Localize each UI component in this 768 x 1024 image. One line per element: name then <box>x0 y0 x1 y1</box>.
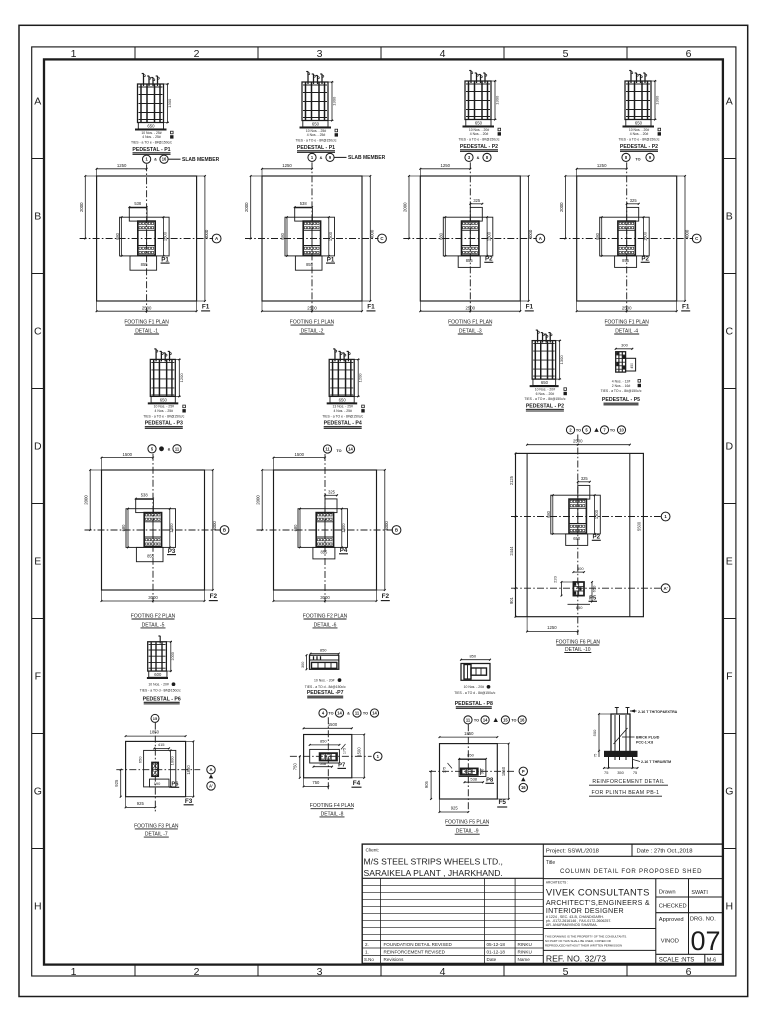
svg-text:2000: 2000 <box>559 202 564 212</box>
svg-text:3: 3 <box>317 48 323 60</box>
column section (hatched) <box>138 221 155 255</box>
svg-text:P1: P1 <box>327 256 335 263</box>
svg-text:1300: 1300 <box>169 523 174 533</box>
F3 dimension 415 <box>154 747 169 749</box>
svg-text:10 Nos. - 20#: 10 Nos. - 20# <box>469 128 489 132</box>
dimension 680 <box>601 217 603 256</box>
svg-text:1500: 1500 <box>328 722 338 727</box>
svg-text:TIES - a TO d - 8#@150c/c: TIES - a TO d - 8#@150c/c <box>454 691 495 695</box>
svg-text:TIES - a TO e - 8#@150c/c: TIES - a TO e - 8#@150c/c <box>143 415 184 419</box>
svg-text:500: 500 <box>592 729 597 736</box>
svg-text:650: 650 <box>160 398 168 403</box>
svg-text:1850: 1850 <box>464 731 474 736</box>
svg-text:2125: 2125 <box>509 475 514 485</box>
svg-text:925: 925 <box>137 801 145 806</box>
svg-text:6 Nos. - 20#: 6 Nos. - 20# <box>536 392 555 396</box>
svg-text:3000: 3000 <box>320 595 330 600</box>
column section (hatched) <box>569 499 586 533</box>
pedestal height dimension <box>556 340 562 342</box>
footing F5 plan outline <box>440 744 498 799</box>
F5 dimension 925 bottom <box>440 811 469 813</box>
dimension 4000 <box>384 470 386 590</box>
svg-text:TO: TO <box>363 712 368 716</box>
PB-1 vertical rebars <box>614 715 616 760</box>
PB-1 legs below band <box>608 757 610 768</box>
grid bubble callout row <box>465 153 473 161</box>
svg-text:F: F <box>35 671 41 683</box>
column section (hatched) <box>618 221 635 255</box>
vertical centerline <box>146 164 148 313</box>
svg-text:SCALE :NTS: SCALE :NTS <box>659 956 695 963</box>
svg-text:SLAB MEMBER: SLAB MEMBER <box>348 155 386 161</box>
svg-text:&: & <box>154 158 157 162</box>
F4 horizontal centerline <box>290 755 372 757</box>
svg-text:Client:: Client: <box>366 848 380 854</box>
plinth beam PB-1 section outline <box>611 714 630 755</box>
svg-text:350: 350 <box>617 770 624 775</box>
F3 grid bubble A' <box>207 782 215 790</box>
F6 horizontal centerline 2 <box>511 587 661 589</box>
svg-text:2444: 2444 <box>509 546 514 556</box>
F5 dimension 300 <box>480 768 482 775</box>
F6 horizontal centerline 1 <box>511 516 661 518</box>
svg-text:PEDESTAL - P2: PEDESTAL - P2 <box>526 403 564 409</box>
svg-text:Title: Title <box>546 860 555 866</box>
svg-text:1000: 1000 <box>170 756 175 766</box>
pedestal P5 300 dimension <box>616 348 633 350</box>
PB-1 top rebar hooks <box>616 708 618 715</box>
PB-1 dimension 75(depth) <box>598 751 600 757</box>
F6 left dimension 2444 <box>515 517 517 589</box>
svg-text:650: 650 <box>576 605 583 610</box>
svg-text:P3: P3 <box>168 548 176 555</box>
P6 rebar tail <box>159 636 161 644</box>
F4 pedestal P7 outer box <box>310 749 340 763</box>
svg-text:14: 14 <box>337 710 342 715</box>
svg-text:REINFORCEMENT REVISED: REINFORCEMENT REVISED <box>384 949 446 954</box>
dimension 1500 <box>102 457 154 459</box>
svg-text:REPRODUCED WITHOUT THEIR WRITT: REPRODUCED WITHOUT THEIR WRITTEN PERMISS… <box>545 943 622 947</box>
svg-text:1250: 1250 <box>441 163 451 168</box>
F4 vertical centerline <box>327 717 329 791</box>
F6 dimension 1250 <box>527 631 578 633</box>
svg-text:TIES - a TO d - 8#@150c/c: TIES - a TO d - 8#@150c/c <box>305 685 346 689</box>
svg-text:DRG. NO.: DRG. NO. <box>690 917 716 923</box>
svg-text:750: 750 <box>312 780 320 785</box>
pedestal base line <box>148 402 179 404</box>
svg-text:14: 14 <box>483 717 488 722</box>
dimension 2000 <box>564 176 566 239</box>
P7 column bar <box>312 662 337 668</box>
footing pedestal plan: outer pedestal box <box>600 217 650 256</box>
svg-text:538: 538 <box>300 201 308 206</box>
svg-text:INTERIOR DESIGNER: INTERIOR DESIGNER <box>546 907 624 915</box>
column section (hatched) <box>303 221 320 255</box>
F3 dimension 925 left <box>120 770 122 797</box>
svg-text:2-16 T TH/TOP&EXTRA: 2-16 T TH/TOP&EXTRA <box>638 710 678 714</box>
svg-text:650: 650 <box>591 585 596 592</box>
drawn / checked / approved column <box>688 879 690 913</box>
dimension 680 <box>121 217 123 256</box>
svg-text:325: 325 <box>630 198 638 203</box>
svg-text:850: 850 <box>467 752 474 757</box>
svg-text:TO: TO <box>635 157 640 161</box>
pedestal width 650 box <box>626 120 651 126</box>
F5 dimension 538 <box>465 781 484 783</box>
svg-text:PEDESTAL - P2: PEDESTAL - P2 <box>620 144 658 150</box>
svg-text:2000: 2000 <box>244 202 249 212</box>
dimension 4000 <box>204 176 206 301</box>
svg-text:650: 650 <box>541 380 549 385</box>
F3 horizontal centerline <box>116 769 200 771</box>
PB-1 mid leader BRICK PLG/D <box>622 736 635 738</box>
svg-text:PEDESTAL - P3: PEDESTAL - P3 <box>145 421 183 427</box>
horizontal centerline <box>257 529 394 531</box>
F6 pedestal P5 plan box <box>573 582 584 596</box>
F5 column section <box>461 768 478 775</box>
svg-text:TIES - a TO c - 8#@150c/c: TIES - a TO c - 8#@150c/c <box>601 389 642 393</box>
svg-text:G: G <box>34 786 42 798</box>
svg-text:A: A <box>209 767 212 772</box>
footing pedestal plan: outer pedestal box <box>126 509 176 548</box>
pedestal P6 elevation cage <box>148 642 167 671</box>
svg-text:600: 600 <box>154 672 162 677</box>
svg-text:DETAIL -10: DETAIL -10 <box>565 647 591 653</box>
pedestal lower offset box <box>615 256 637 268</box>
F5 triangle marker <box>521 777 525 781</box>
PB-1 dimension 500 <box>598 714 600 751</box>
footing F6 plan outline <box>516 453 644 616</box>
dimension 1300 <box>169 509 171 548</box>
svg-text:855: 855 <box>306 262 314 267</box>
svg-text:2-16 T THRU/BTM: 2-16 T THRU/BTM <box>641 760 671 764</box>
revision table grid <box>362 884 543 886</box>
svg-text:4: 4 <box>440 48 446 60</box>
footing plan FOOTING F1 PLAN DETAIL -4 outline <box>577 176 677 301</box>
footing pedestal plan: outer pedestal box <box>443 217 493 256</box>
svg-text:75: 75 <box>594 754 598 758</box>
svg-text:A': A' <box>663 586 667 591</box>
svg-text:2000: 2000 <box>403 202 408 212</box>
svg-text:F3: F3 <box>185 798 193 805</box>
svg-text:PEDESTAL - P1: PEDESTAL - P1 <box>132 147 170 153</box>
svg-text:1: 1 <box>71 966 77 978</box>
svg-text:4 Nos. - 25#: 4 Nos. - 25# <box>333 409 352 413</box>
dimension 2500 <box>420 310 520 312</box>
svg-text:680: 680 <box>293 524 298 532</box>
F5 grid bubble P <box>519 767 527 775</box>
svg-text:680: 680 <box>121 524 126 532</box>
svg-text:1200: 1200 <box>358 373 363 383</box>
dimension 325 <box>470 203 482 205</box>
svg-text:FOOTING F6 PLAN: FOOTING F6 PLAN <box>556 639 601 645</box>
svg-text:1850: 1850 <box>150 730 160 735</box>
svg-text:4: 4 <box>440 966 446 978</box>
F3 triangle marker <box>209 774 213 778</box>
svg-text:5500: 5500 <box>637 521 642 531</box>
svg-text:750: 750 <box>293 763 298 771</box>
pedestal rebar tails <box>307 72 309 85</box>
svg-text:PEDESTAL - P2: PEDESTAL - P2 <box>460 144 498 150</box>
title block client cell <box>362 877 543 879</box>
svg-text:415: 415 <box>158 742 165 747</box>
svg-text:5: 5 <box>563 48 569 60</box>
dimension 1500 <box>274 457 326 459</box>
F6 grid bubble 1 <box>661 512 670 521</box>
grid bubble A <box>212 234 221 243</box>
svg-text:DETAIL -7: DETAIL -7 <box>145 832 168 838</box>
svg-text:05-12-18: 05-12-18 <box>487 942 506 947</box>
svg-text:Name: Name <box>518 957 531 962</box>
dimension 2500 <box>262 310 362 312</box>
pedestal width 650 box <box>330 396 354 402</box>
svg-text:10 Nos. - 25#: 10 Nos. - 25# <box>154 405 174 409</box>
F6 left dimension 2125 <box>515 453 517 516</box>
pedestal height dimension <box>175 358 181 360</box>
dimension 538 <box>129 206 146 208</box>
dimension 1300 <box>162 217 164 256</box>
dimension 680 <box>286 217 288 256</box>
PB-1 top leader 2-16 dia THRU/TOP <box>630 710 637 712</box>
F4 dimension 850 <box>310 744 340 746</box>
P8 left column strip <box>464 665 471 680</box>
svg-text:&: & <box>477 156 480 160</box>
svg-text:1300: 1300 <box>328 231 333 241</box>
svg-text:1250: 1250 <box>282 163 292 168</box>
svg-text:REF. NO. 32/73: REF. NO. 32/73 <box>546 954 606 964</box>
svg-text:1850: 1850 <box>501 766 506 776</box>
svg-text:650: 650 <box>147 124 155 129</box>
svg-text:SLAB MEMBER: SLAB MEMBER <box>182 157 220 163</box>
svg-text:B: B <box>34 211 41 223</box>
svg-text:1300: 1300 <box>594 509 599 519</box>
svg-text:190: 190 <box>154 781 161 786</box>
svg-text:850: 850 <box>320 739 327 744</box>
pedestal height dimension <box>491 80 497 82</box>
pedestal P3 elevation cage <box>150 359 175 396</box>
svg-text:300: 300 <box>577 566 584 571</box>
svg-text:680: 680 <box>439 232 444 240</box>
svg-text:855: 855 <box>622 258 630 263</box>
svg-text:FOOTING F3 PLAN: FOOTING F3 PLAN <box>134 823 179 829</box>
pedestal P2 elevation cage <box>532 341 556 380</box>
pedestal base line <box>135 129 167 131</box>
svg-text:TIES - a TO d - 8#@150c/c: TIES - a TO d - 8#@150c/c <box>140 689 181 693</box>
svg-text:PEDESTAL - P1: PEDESTAL - P1 <box>297 145 335 151</box>
svg-text:325: 325 <box>473 198 481 203</box>
svg-text:TO: TO <box>336 449 341 453</box>
pedestal lower offset box <box>130 256 157 270</box>
svg-text:P8: P8 <box>486 777 494 783</box>
grid bubble B <box>392 526 401 535</box>
svg-text:P2: P2 <box>641 255 649 262</box>
svg-text:1250: 1250 <box>117 163 127 168</box>
svg-text:538: 538 <box>134 201 142 206</box>
architects cell <box>655 879 657 964</box>
svg-text:14: 14 <box>348 446 353 451</box>
svg-text:PEDESTAL - P8: PEDESTAL - P8 <box>455 701 493 707</box>
F3 grid bubble 15 <box>151 714 159 722</box>
svg-text:6: 6 <box>686 966 692 978</box>
svg-text:4000: 4000 <box>528 229 533 239</box>
svg-text:Drawn: Drawn <box>659 890 676 896</box>
svg-text:901: 901 <box>509 596 514 604</box>
svg-text:650: 650 <box>137 756 142 763</box>
dimension 680 <box>127 509 129 548</box>
dimension 1250 <box>262 168 312 170</box>
svg-text:15: 15 <box>503 717 508 722</box>
dimension 1300 <box>341 509 343 548</box>
svg-text:300: 300 <box>301 662 305 668</box>
svg-text:E: E <box>34 556 41 568</box>
project / date row <box>543 855 723 857</box>
dimension 2000 <box>408 176 410 239</box>
pedestal P5 elevation <box>616 352 626 372</box>
svg-text:855: 855 <box>147 553 155 558</box>
F5 dimension 1850 right <box>508 744 510 799</box>
svg-text:220: 220 <box>552 575 557 582</box>
svg-text:2000: 2000 <box>256 495 261 505</box>
svg-text:4000: 4000 <box>370 229 375 239</box>
scale row <box>656 953 723 955</box>
dimension 680 <box>444 217 446 256</box>
svg-text:10 Nos. - 25#: 10 Nos. - 25# <box>306 129 326 133</box>
svg-text:10 Nos. - 20#: 10 Nos. - 20# <box>148 682 168 686</box>
svg-text:TIES - a TO e - 8#@150c/c: TIES - a TO e - 8#@150c/c <box>458 138 499 142</box>
svg-text:1200: 1200 <box>179 373 184 383</box>
dimension 1250 <box>577 168 627 170</box>
svg-text:VIVEK CONSULTANTS: VIVEK CONSULTANTS <box>546 887 650 898</box>
svg-text:H: H <box>34 901 42 913</box>
pedestal P4 elevation cage <box>329 359 354 396</box>
F4 column section <box>320 753 337 760</box>
svg-text:300: 300 <box>621 343 628 348</box>
svg-text:E: E <box>726 556 733 568</box>
svg-text:855: 855 <box>320 549 328 554</box>
svg-text:650: 650 <box>573 536 581 541</box>
svg-text:13 Nos. - 25#: 13 Nos. - 25# <box>333 405 353 409</box>
F6 grid bubble callout row <box>566 426 574 434</box>
svg-text:01-12-18: 01-12-18 <box>487 949 506 954</box>
svg-text:11: 11 <box>466 717 471 722</box>
pedestal lower offset box <box>295 256 322 270</box>
pedestal height dimension <box>164 83 170 85</box>
svg-text:11: 11 <box>175 446 180 451</box>
svg-text:A: A <box>726 96 733 108</box>
grid bubble C <box>692 234 701 243</box>
svg-text:1000: 1000 <box>171 652 175 660</box>
svg-text:650: 650 <box>339 398 347 403</box>
pedestal rebar tails <box>630 71 632 84</box>
dimension 680 <box>552 495 554 534</box>
svg-text:DETAIL -9: DETAIL -9 <box>456 829 479 835</box>
svg-text:925: 925 <box>451 806 459 811</box>
F5 dimension 175 <box>448 763 453 768</box>
dimension 3000 <box>274 600 377 602</box>
column section (hatched) <box>144 513 161 547</box>
dimension 4000 <box>212 470 214 590</box>
svg-text:P7: P7 <box>338 763 345 769</box>
pedestal P1 elevation cage <box>138 84 164 123</box>
footing F3 plan outline <box>126 741 186 796</box>
footing pedestal plan: outer pedestal box <box>285 217 335 256</box>
dimension 3000 <box>102 600 205 602</box>
svg-text:11: 11 <box>355 710 360 715</box>
svg-text:538: 538 <box>141 493 149 498</box>
svg-text:B: B <box>726 211 733 223</box>
pedestal rebar tails <box>537 330 539 343</box>
horizontal centerline <box>560 238 694 240</box>
pedestal P8 dimension 850 <box>461 659 490 661</box>
svg-text:3000: 3000 <box>148 595 158 600</box>
svg-text:F4: F4 <box>353 780 361 787</box>
F5 vertical centerline <box>467 724 469 812</box>
svg-text:NO PART OF THIS SHALL BE USED,: NO PART OF THIS SHALL BE USED, COPIED OR <box>545 939 611 943</box>
svg-text:SWATI: SWATI <box>691 890 707 896</box>
F5 dimension 905 left <box>430 771 432 799</box>
pedestal P2 elevation cage <box>465 81 491 120</box>
dimension 2000 <box>250 176 252 239</box>
pedestal base line <box>327 402 358 404</box>
F6 P5 dimension 300 <box>573 571 584 573</box>
svg-text:F1: F1 <box>682 303 690 310</box>
svg-text:FOUNDATION DETAIL REVISED: FOUNDATION DETAIL REVISED <box>384 942 453 947</box>
svg-text:M/S STEEL STRIPS WHEELS LTD.,: M/S STEEL STRIPS WHEELS LTD., <box>364 857 503 867</box>
footing plan FOOTING F1 PLAN DETAIL -1 outline <box>97 176 197 301</box>
svg-text:BRICK PLG/D: BRICK PLG/D <box>636 736 660 740</box>
drg no separator <box>688 913 690 955</box>
svg-text:325: 325 <box>328 490 336 495</box>
svg-text:325: 325 <box>581 476 589 481</box>
pedestal rebar tails <box>143 74 145 87</box>
svg-text:THIS DRAWING IS THE PROPERTY O: THIS DRAWING IS THE PROPERTY OF THE CONS… <box>545 935 627 939</box>
F3 pedestal lower box <box>150 779 170 787</box>
pedestal upper offset box <box>325 499 337 513</box>
svg-text:10: 10 <box>619 427 624 432</box>
pedestal base line <box>300 127 332 129</box>
svg-text:TIES - a TO e - 8#@150c/c: TIES - a TO e - 8#@150c/c <box>524 397 565 401</box>
svg-text:10 Nos. - 20#: 10 Nos. - 20# <box>464 685 484 689</box>
svg-text:905: 905 <box>424 780 429 788</box>
dimension 538 <box>295 206 312 208</box>
svg-text:10 Nos. - 20#: 10 Nos. - 20# <box>535 387 555 391</box>
svg-text:AR. ANUPAM/VINOD SHARMA.: AR. ANUPAM/VINOD SHARMA. <box>546 923 598 927</box>
svg-text:650: 650 <box>475 121 483 126</box>
svg-text:P4: P4 <box>340 547 348 554</box>
svg-text:F1: F1 <box>202 303 210 310</box>
footing pedestal plan: outer pedestal box <box>298 509 348 548</box>
svg-text:FOOTING F4 PLAN: FOOTING F4 PLAN <box>310 803 355 809</box>
dimension 2000 <box>89 470 91 530</box>
svg-text:PEDESTAL - P4: PEDESTAL - P4 <box>324 421 362 427</box>
column section (hatched) <box>462 221 479 255</box>
pedestal height dimension <box>354 358 360 360</box>
svg-text:F: F <box>726 671 732 683</box>
svg-text:&: & <box>168 447 171 451</box>
F3 column section <box>152 763 158 777</box>
svg-text:1300: 1300 <box>332 96 337 106</box>
dimension 1300 <box>643 217 645 256</box>
svg-text:4 Nos. - 25#: 4 Nos. - 25# <box>142 135 161 139</box>
dimension 325 <box>627 203 639 205</box>
svg-text:TIES - a TO e - 8#@150c/c: TIES - a TO e - 8#@150c/c <box>322 415 363 419</box>
svg-text:A': A' <box>209 783 213 788</box>
svg-text:PCC-1:4:8: PCC-1:4:8 <box>636 741 653 745</box>
dimension 1250 <box>420 168 470 170</box>
svg-text:TO: TO <box>610 428 615 432</box>
svg-text:175: 175 <box>343 748 347 754</box>
vertical centerline <box>469 162 471 312</box>
